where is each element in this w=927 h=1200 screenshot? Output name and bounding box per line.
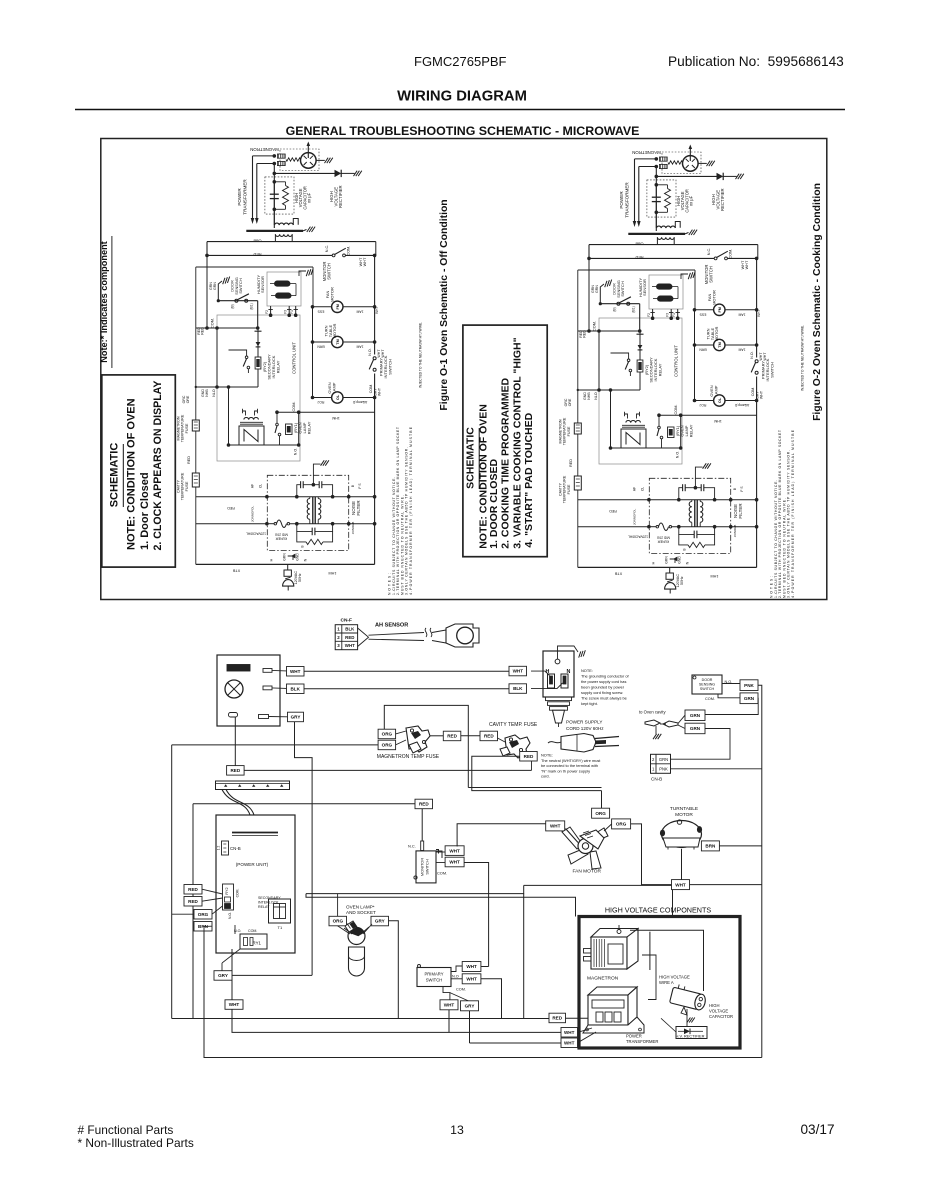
- svg-text:cord.: cord.: [541, 774, 550, 779]
- svg-text:N.O.: N.O.: [228, 912, 232, 919]
- lamp bulb: [349, 947, 365, 976]
- svg-text:to Oven cavity: to Oven cavity: [639, 710, 666, 715]
- wire ORG over: [468, 787, 601, 789]
- svg-text:kept tight.: kept tight.: [581, 701, 598, 706]
- svg-text:RY1: RY1: [253, 941, 262, 946]
- svg-text:be connected to the termina: be connected to the terminal with: [541, 763, 598, 768]
- svg-text:RED: RED: [188, 899, 198, 904]
- label WHT: [462, 962, 481, 972]
- monitor switch: [414, 841, 442, 883]
- TURNTABLE MOTOR label: [670, 806, 698, 818]
- note box O-1: [102, 375, 176, 567]
- svg-text:TURNTABLE: TURNTABLE: [670, 806, 698, 812]
- terminal strip: [216, 781, 290, 790]
- label WHT: [561, 1038, 578, 1048]
- svg-text:MAGNETRON TEMP FUSE: MAGNETRON TEMP FUSE: [377, 754, 440, 760]
- svg-text:1 2: 1 2: [217, 846, 221, 851]
- svg-text:GRY: GRY: [218, 973, 228, 978]
- svg-text:Figure O-1 Oven Schematic - Of: Figure O-1 Oven Schematic - Off Conditio…: [439, 199, 450, 410]
- label RED: [227, 766, 245, 776]
- svg-text:been grounded by power: been grounded by power: [581, 685, 625, 690]
- svg-text:GRY: GRY: [291, 715, 301, 720]
- svg-text:WIRING DIAGRAM: WIRING DIAGRAM: [397, 89, 527, 105]
- power plug: [548, 734, 619, 753]
- svg-text:GRN: GRN: [659, 757, 668, 762]
- wire to receptacle N: [531, 683, 563, 689]
- wire RED (display): [234, 717, 236, 766]
- label BLK: [287, 684, 305, 694]
- svg-text:AH SENSOR: AH SENSOR: [375, 623, 408, 629]
- label GRN: [685, 723, 705, 734]
- grounding note text: [581, 668, 630, 706]
- svg-text:BRN: BRN: [705, 844, 716, 849]
- svg-text:Note:* Indicates component: Note:* Indicates component: [99, 241, 109, 363]
- svg-text:WHT: WHT: [229, 1002, 240, 1007]
- svg-text:BLK: BLK: [513, 686, 523, 691]
- display power unit box: [217, 655, 280, 726]
- ribbon cable: [222, 790, 254, 816]
- door switch wires: [705, 684, 762, 1058]
- svg-text:SCHEMATIC: SCHEMATIC: [465, 427, 477, 489]
- wire ORG down: [601, 791, 603, 809]
- wire WHT to fan hub: [566, 829, 579, 843]
- wire GRY row: [232, 974, 312, 976]
- label ORG: [194, 910, 212, 920]
- svg-text:SWITCH: SWITCH: [425, 859, 430, 875]
- wire left col: [192, 804, 194, 1019]
- wire to RED: [526, 752, 528, 755]
- connector CN-B rows: [651, 754, 671, 781]
- svg-text:1. Door Closed: 1. Door Closed: [139, 472, 151, 550]
- svg-text:OVEN LAMP*: OVEN LAMP*: [346, 905, 375, 910]
- wire RED left-down: [472, 756, 602, 790]
- svg-text:COM.: COM.: [236, 889, 240, 898]
- svg-text:ORG: ORG: [595, 811, 606, 816]
- label BRN: [194, 922, 212, 932]
- svg-text:COM.: COM.: [705, 697, 715, 701]
- svg-text:GRY: GRY: [375, 919, 385, 924]
- connector CN-F: [335, 618, 357, 650]
- label RED: [549, 1013, 566, 1023]
- svg-text:WHT: WHT: [466, 977, 477, 982]
- svg-text:3: 3: [337, 643, 340, 648]
- RY2 relay on power unit: [223, 884, 240, 919]
- svg-text:"N" mark on th power su: "N" mark on th power supply: [541, 768, 590, 773]
- AH sensor: [446, 624, 479, 647]
- label WHT: [672, 880, 690, 890]
- svg-text:* Non-Illustrated Parts: * Non-Illustrated Parts: [78, 1136, 194, 1150]
- label WHT: [445, 846, 464, 856]
- POWER TRANSFORMER label: [626, 1034, 658, 1045]
- power unit wires: [172, 889, 762, 1057]
- svg-text:The grounding conductor of: The grounding conductor of: [581, 674, 630, 679]
- label BRN: [701, 841, 719, 851]
- svg-text:The screw must always be: The screw must always be: [581, 696, 627, 701]
- monitor WHT wires: [436, 824, 546, 967]
- svg-text:PNK: PNK: [744, 683, 754, 688]
- note box O-2: [463, 325, 547, 557]
- label WHT: [225, 1000, 243, 1010]
- svg-text:Publication No: 5995686143: Publication No: 5995686143: [668, 54, 844, 69]
- svg-text:WHT: WHT: [444, 1003, 455, 1008]
- primary COM wires: [443, 987, 470, 1002]
- svg-text:SENSING: SENSING: [699, 683, 715, 687]
- wire to receptacle H: [531, 671, 550, 675]
- svg-text:supply cord fixing screw.: supply cord fixing screw.: [581, 690, 623, 695]
- label GRN: [685, 710, 705, 721]
- label RED: [480, 731, 498, 741]
- svg-text:HIGH VOLTAGE: HIGH VOLTAGE: [659, 975, 690, 980]
- label PNK: [740, 680, 758, 691]
- svg-text:SCHEMATIC: SCHEMATIC: [109, 443, 121, 508]
- magnetron temp fuse: [396, 726, 430, 753]
- outer schematic box: [101, 139, 827, 600]
- hv rectifier: [661, 1018, 707, 1039]
- svg-text:MAGNETRON: MAGNETRON: [587, 976, 619, 982]
- power unit box: [216, 815, 295, 953]
- label WHT: [462, 974, 481, 984]
- svg-text:4. "START" PAD TOUCHED: 4. "START" PAD TOUCHED: [523, 412, 535, 547]
- svg-text:FAN MOTOR: FAN MOTOR: [573, 869, 602, 875]
- svg-text:1. DOOR CLOSED: 1. DOOR CLOSED: [488, 459, 500, 549]
- svg-text:13: 13: [450, 1123, 464, 1137]
- svg-text:ORG: ORG: [382, 732, 393, 737]
- lamp wires: [338, 894, 399, 1019]
- header rule: [75, 109, 845, 111]
- fan motor: [562, 827, 608, 869]
- label ORG: [592, 808, 610, 818]
- high voltage box: [579, 917, 740, 1049]
- wire RED hv: [566, 1017, 589, 1019]
- svg-text:2: 2: [337, 635, 340, 640]
- svg-text:2: 2: [652, 757, 655, 762]
- svg-text:WHT: WHT: [675, 882, 686, 887]
- power transformer 3d: [583, 987, 644, 1033]
- svg-text:T1: T1: [278, 925, 283, 930]
- svg-text:2. COOKING TIME PROGRAMMED: 2. COOKING TIME PROGRAMMED: [500, 377, 512, 548]
- label WHT: [561, 1028, 578, 1038]
- svg-text:CORD 120V 60Hz: CORD 120V 60Hz: [566, 726, 604, 731]
- svg-text:WHT: WHT: [449, 848, 460, 853]
- label GRY: [288, 712, 304, 722]
- wires below: [449, 1010, 561, 1043]
- svg-text:COM.: COM.: [456, 988, 466, 992]
- wire WHT: [304, 670, 509, 672]
- svg-text:RED: RED: [524, 754, 534, 759]
- svg-text:NOTE: CONDITION OF OVEN: NOTE: CONDITION OF OVEN: [125, 398, 137, 550]
- CN-F wires to sensor: [358, 628, 446, 647]
- label WHT: [287, 667, 305, 677]
- svg-text:MOTOR: MOTOR: [675, 812, 693, 818]
- wire BRN: [719, 845, 761, 847]
- svg-text:PRIMARY: PRIMARY: [424, 972, 443, 977]
- svg-text:03/17: 03/17: [801, 1122, 835, 1137]
- label ORG: [612, 819, 631, 829]
- svg-text:3. VARIABLE COOKING CONTROL "H: 3. VARIABLE COOKING CONTROL "HIGH": [512, 337, 524, 548]
- svg-text:GRN: GRN: [690, 713, 701, 718]
- label RED: [520, 752, 538, 762]
- svg-text:HIGH VOLTAGE COMPONENTS: HIGH VOLTAGE COMPONENTS: [605, 906, 712, 915]
- oven schematic O-1 (off condition): [176, 142, 422, 596]
- svg-text:BLK: BLK: [345, 627, 355, 632]
- wire ORG up-over: [384, 705, 468, 787]
- oven schematic O-2 (cooking condition): [558, 145, 804, 599]
- svg-text:WHT: WHT: [449, 860, 460, 865]
- svg-text:DOOR: DOOR: [702, 678, 713, 682]
- CN-B PNK wire: [671, 768, 762, 770]
- secondary interlock relay label: [258, 896, 281, 909]
- svg-text:RY2: RY2: [225, 887, 229, 894]
- svg-text:TRANSFORMER: TRANSFORMER: [626, 1039, 658, 1044]
- wire loop left: [172, 745, 549, 1019]
- svg-text:WHT: WHT: [550, 824, 561, 829]
- wire RED to RED: [461, 735, 480, 737]
- label RED: [184, 885, 202, 895]
- label GRY: [461, 1001, 479, 1011]
- svg-text:WHT: WHT: [466, 964, 477, 969]
- wire WHT top hv: [672, 890, 674, 917]
- label ORG: [329, 916, 347, 926]
- wire WHT row long: [232, 1009, 561, 1032]
- label WHT: [509, 666, 527, 676]
- svg-text:RED: RED: [188, 887, 198, 892]
- svg-text:ORG: ORG: [333, 919, 344, 924]
- label WHT: [440, 1000, 458, 1010]
- POWER SUPPLY CORD label: [566, 720, 604, 732]
- cavity GRN wires: [671, 715, 731, 759]
- svg-text:ORG: ORG: [198, 912, 209, 917]
- lamp socket: [344, 921, 369, 945]
- svg-text:1: 1: [337, 627, 340, 632]
- svg-text:Figure O-2 Oven Schematic - Co: Figure O-2 Oven Schematic - Cooking Cond…: [812, 183, 823, 421]
- wire RED long: [244, 769, 531, 771]
- svg-text:FGMC2765PBF: FGMC2765PBF: [414, 54, 507, 69]
- turntable motor: [660, 820, 702, 850]
- svg-text:(POWER UNIT): (POWER UNIT): [236, 862, 269, 867]
- HIGH VOLTAGE CAPACITOR label: [709, 1003, 733, 1019]
- svg-text:RED: RED: [230, 768, 240, 773]
- svg-text:CN-F: CN-F: [341, 618, 353, 624]
- hv magnetron 3d: [584, 925, 639, 969]
- svg-text:1: 1: [652, 767, 655, 772]
- note: indicates component: [99, 236, 112, 368]
- svg-text:CAPACITOR: CAPACITOR: [709, 1014, 733, 1019]
- svg-text:POWER SUPPLY: POWER SUPPLY: [566, 720, 602, 725]
- svg-text:RED: RED: [552, 1016, 562, 1021]
- svg-text:GRN: GRN: [690, 726, 701, 731]
- svg-text:ORG: ORG: [616, 822, 627, 827]
- svg-text:RED: RED: [484, 734, 494, 739]
- svg-text:WHT: WHT: [513, 669, 524, 674]
- label GRN: [740, 693, 758, 704]
- svg-text:AND SOCKET: AND SOCKET: [346, 910, 376, 915]
- svg-text:HIGH: HIGH: [709, 1003, 719, 1008]
- RY1 relay on power unit: [234, 929, 267, 949]
- svg-text:PNK: PNK: [659, 767, 668, 772]
- T1 transformer: [269, 899, 291, 930]
- label GRY: [371, 916, 389, 926]
- svg-text:WHT: WHT: [290, 669, 301, 674]
- hv wire A path: [630, 930, 704, 999]
- cord grip: [546, 697, 572, 727]
- svg-text:WHT: WHT: [564, 1030, 575, 1035]
- svg-text:N.C.: N.C.: [408, 844, 416, 849]
- svg-text:CAVITY TEMP. FUSE: CAVITY TEMP. FUSE: [489, 722, 538, 728]
- svg-text:GENERAL TROUBLESHOOTING SCHEMA: GENERAL TROUBLESHOOTING SCHEMATIC - MICR…: [286, 124, 640, 138]
- svg-text:RED: RED: [447, 734, 457, 739]
- label RED: [415, 799, 433, 809]
- wire TT down: [681, 849, 683, 880]
- wire fuse to RED: [430, 735, 443, 737]
- svg-text:H.V. RECTIFIER: H.V. RECTIFIER: [676, 1034, 705, 1039]
- svg-text:SWITCH: SWITCH: [700, 687, 715, 691]
- svg-text:RED: RED: [345, 635, 354, 640]
- HIGH VOLTAGE WIRE A label: [659, 975, 690, 986]
- door sensing switch box: [692, 675, 722, 694]
- label BLK: [509, 684, 527, 694]
- label GRY: [214, 971, 232, 981]
- wire RED to monitor: [421, 809, 423, 841]
- wire WHT row: [306, 885, 762, 917]
- svg-text:WIRE A: WIRE A: [659, 980, 674, 985]
- cavity temp fuse: [498, 735, 531, 758]
- svg-text:VOLTAGE: VOLTAGE: [709, 1009, 728, 1014]
- svg-text:BLK: BLK: [290, 686, 300, 691]
- wire ORG to right: [604, 824, 672, 885]
- svg-text:NOTE:: NOTE:: [541, 753, 553, 758]
- wire RED row: [193, 803, 415, 805]
- svg-text:COM.: COM.: [248, 929, 257, 933]
- wire RED drop: [531, 761, 533, 770]
- hv capacitor: [670, 983, 708, 1015]
- cavity ground connectors: [645, 720, 678, 739]
- primary switch wires: [451, 894, 524, 1019]
- receptacle ground: [558, 646, 587, 659]
- svg-text:# Functional Parts: # Functional Parts: [78, 1123, 174, 1137]
- svg-text:N.O: N.O: [452, 975, 459, 979]
- svg-text:CN-B: CN-B: [230, 846, 241, 851]
- svg-text:SWITCH: SWITCH: [426, 978, 443, 983]
- label WHT: [445, 857, 464, 867]
- label ORG: [378, 740, 396, 750]
- svg-text:NOTE:: NOTE:: [581, 668, 593, 673]
- label RED: [184, 897, 202, 907]
- svg-text:2. CLOCK APPEARS ON DISPLAY: 2. CLOCK APPEARS ON DISPLAY: [152, 381, 164, 551]
- label ORG: [378, 729, 396, 739]
- CN-B connector on power unit: [217, 841, 241, 855]
- svg-text:CN-B: CN-B: [651, 777, 662, 782]
- svg-text:COM.: COM.: [437, 871, 447, 876]
- wire hv cap down: [686, 1009, 688, 1027]
- svg-text:WHT: WHT: [564, 1040, 575, 1045]
- primary switch box: [417, 965, 451, 987]
- receptacle: [543, 651, 574, 697]
- svg-text:GRY: GRY: [465, 1004, 475, 1009]
- svg-text:RED: RED: [419, 802, 429, 807]
- wire WHT hv: [549, 1018, 596, 1043]
- wire GRY down: [269, 717, 313, 976]
- svg-text:The neutral (WHT/GRY) wire mus: The neutral (WHT/GRY) wire must: [541, 758, 601, 763]
- svg-text:the power supply cord has: the power supply cord has: [581, 679, 626, 684]
- note neutral text: [541, 753, 601, 779]
- svg-text:GRN: GRN: [744, 696, 755, 701]
- label WHT: [546, 821, 565, 831]
- svg-text:ORG: ORG: [382, 743, 393, 748]
- svg-text:POWER: POWER: [626, 1034, 642, 1039]
- label RED: [443, 731, 461, 741]
- wire BLK: [304, 688, 509, 690]
- OVEN LAMP AND SOCKET label: [346, 905, 376, 916]
- svg-text:WHT: WHT: [345, 643, 355, 648]
